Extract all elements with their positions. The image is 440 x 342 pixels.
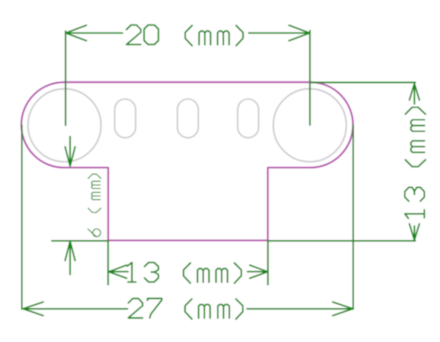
dim 6mm left: label "6 (mm)" rotated, smaller xyxy=(88,174,101,237)
dim 27mm: label "27 (mm)" xyxy=(128,298,243,319)
dim 20mm: extension line left (to hole H1 center) xyxy=(65,31,67,125)
dim 27mm: left arrowhead xyxy=(23,302,43,316)
dim 20mm: label "20 (mm)" xyxy=(127,25,244,46)
dim 13mm bottom: right arrowhead xyxy=(250,265,268,278)
dim 6mm left: lower arrow (points up at tab bottom extension) xyxy=(65,241,75,274)
dim 6mm left: extension line (tab bottom extended left) xyxy=(52,240,108,242)
dim 13mm right: bottom arrowhead xyxy=(409,224,419,240)
dim 13mm bottom: left extension line (below tab corner) xyxy=(107,241,109,285)
slot S2 xyxy=(177,99,198,138)
dim 13mm right: dimension line xyxy=(413,84,415,240)
dim 27mm: right extension line (from plate rightmost) xyxy=(352,125,354,309)
dim 13mm bottom: left arrowhead xyxy=(109,265,127,278)
dim 20mm: dimension line xyxy=(66,32,310,34)
hole H1 (left big circle) xyxy=(28,89,101,162)
dim 13mm bottom: dimension line xyxy=(109,271,268,273)
dim 20mm: right arrowhead xyxy=(289,25,310,41)
board outline (magenta plate with bottom tab) xyxy=(21,82,353,240)
dim 13mm right: label "13 (mm)" rotated xyxy=(405,107,426,218)
dim 20mm: left arrowhead xyxy=(66,25,87,41)
dim 13mm bottom: label "13 (mm)" xyxy=(127,263,241,284)
dim 13mm right: top extension line xyxy=(312,81,416,83)
dim 27mm: right arrowhead xyxy=(333,302,353,316)
slot S1 xyxy=(115,99,136,138)
dim 13mm right: top arrowhead xyxy=(409,84,419,100)
dim 27mm: dimension line xyxy=(23,308,353,310)
dim 13mm right: bottom extension line xyxy=(268,240,416,242)
dim 20mm: extension line right (to hole H2 center) xyxy=(309,31,311,126)
slot S3 xyxy=(238,99,259,138)
dim 13mm bottom: right extension line (below tab corner) xyxy=(267,241,269,285)
hole H2 (right big circle) xyxy=(273,89,346,162)
dim 6mm left: upper arrow (points down at band bottom edge) xyxy=(65,137,75,167)
dim 27mm: left extension line (from plate leftmost) xyxy=(21,125,23,309)
